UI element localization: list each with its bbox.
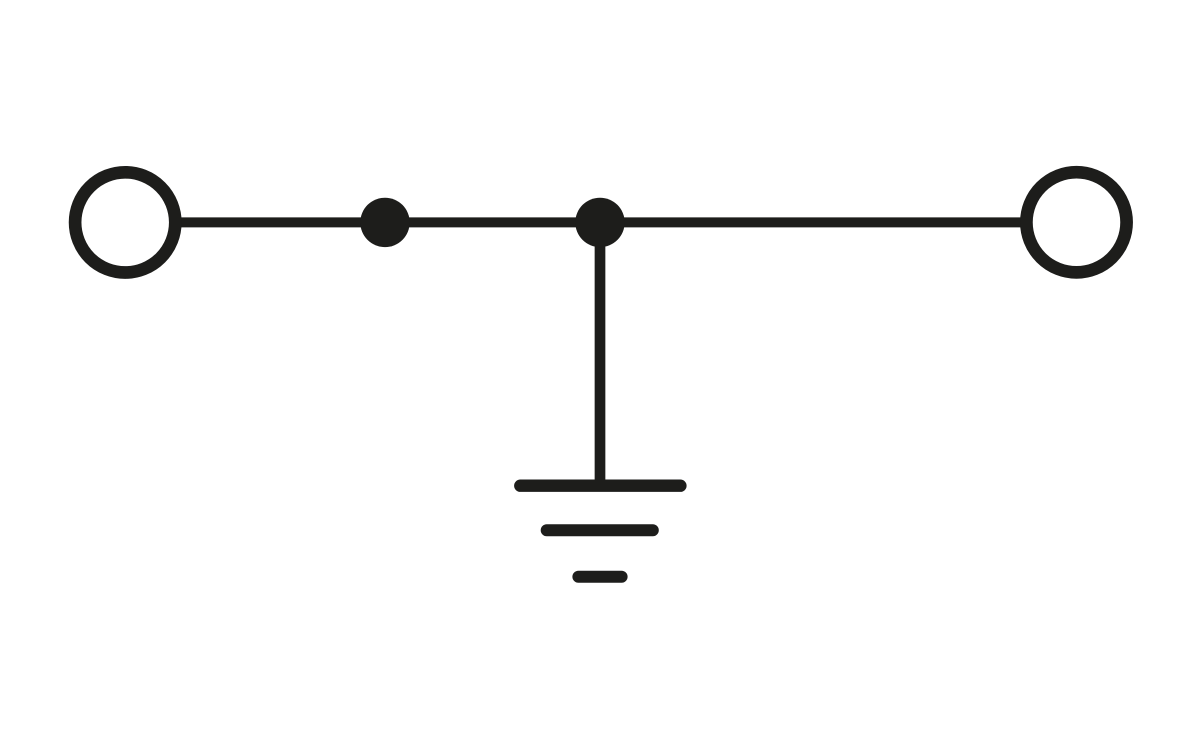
wire: horizontal bus from left terminal to right terminal — [178, 217, 1023, 227]
wire: vertical drop from junction to ground — [595, 222, 606, 486]
ground: bottom bar — [578, 571, 621, 583]
ground: middle bar — [547, 524, 653, 536]
node: connection dot left — [360, 198, 409, 247]
node: junction dot center — [575, 198, 624, 247]
ground: top bar — [520, 480, 680, 492]
terminal circle right (clamp point 2) — [1026, 172, 1126, 272]
terminal circle left (clamp point 1) — [75, 172, 175, 272]
